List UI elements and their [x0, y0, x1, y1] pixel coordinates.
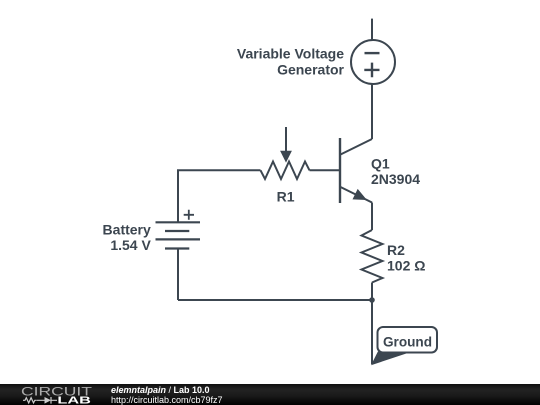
label: R1	[277, 188, 295, 204]
wire: R1 to Q1 base	[310, 169, 341, 171]
label: R2 102 Ohm	[387, 242, 425, 273]
svg-text:Q1: Q1	[371, 156, 390, 172]
svg-text:Ground: Ground	[383, 334, 432, 349]
label: Battery 1.54 V	[103, 221, 152, 253]
wire: battery bottom to return rail	[177, 249, 179, 301]
svg-text:2N3904: 2N3904	[371, 171, 420, 187]
wire: bottom return to battery	[178, 299, 372, 301]
wire: R2 to bottom junction	[371, 283, 373, 301]
svg-text:Battery: Battery	[103, 221, 151, 237]
resistor R1 (variable, with wiper arrow)	[261, 127, 310, 179]
svg-text:R1: R1	[277, 188, 295, 204]
voltage source V1 (Variable Voltage Generator)	[351, 40, 395, 84]
label: Ground	[383, 334, 432, 349]
svg-text:Generator: Generator	[277, 61, 344, 77]
label: Variable Voltage Generator	[237, 45, 345, 77]
wire: generator bottom to Q1 collector	[371, 84, 373, 139]
ground flag (named net Ground)	[372, 327, 437, 364]
CircuitLab logo	[0, 384, 100, 405]
svg-text:LAB: LAB	[57, 394, 91, 405]
svg-text:Variable Voltage: Variable Voltage	[237, 45, 344, 61]
transistor Q1 (NPN 2N3904)	[340, 138, 372, 203]
wire: junction down to ground flag	[371, 300, 373, 364]
svg-text:R2: R2	[387, 242, 405, 258]
node junction (emitter net / ground net)	[369, 297, 375, 303]
wire: top lead into generator	[371, 19, 373, 41]
wire: Q1 emitter to R2	[371, 203, 373, 231]
battery V2 (1.54 V)	[156, 210, 201, 249]
resistor R2	[362, 230, 383, 283]
svg-text:102 Ω: 102 Ω	[387, 258, 425, 274]
svg-text:1.54 V: 1.54 V	[110, 237, 151, 253]
label: Q1 2N3904	[371, 156, 420, 188]
wire: battery top to R1 (left top rail)	[178, 170, 261, 222]
